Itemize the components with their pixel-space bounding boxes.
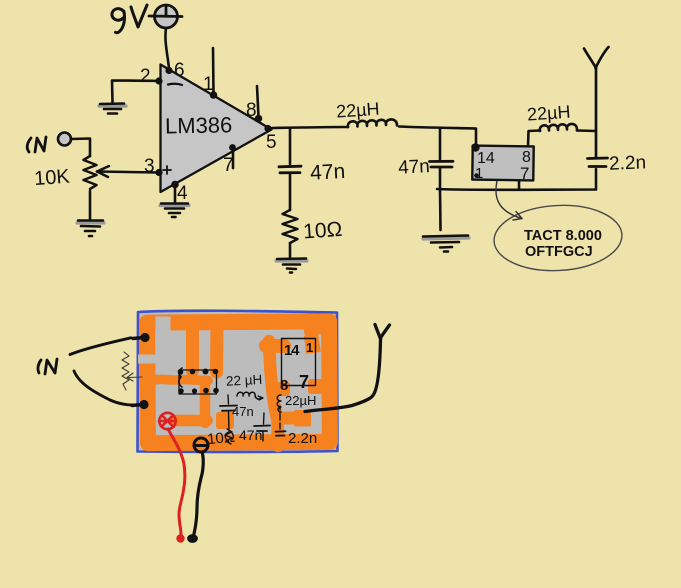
trace vertical DIP down [200,385,211,423]
red wire end [176,534,184,542]
svg-text:22 µH: 22 µH [226,372,263,389]
IC footprint pin labels [280,340,313,394]
svg-text:TACT 8.000: TACT 8.000 [524,228,602,244]
ground (pin 4) [160,204,189,218]
svg-text:14: 14 [284,342,300,359]
bottom net wire [437,169,596,190]
svg-text:6: 6 [174,60,185,81]
pin 6 [165,60,184,81]
capacitor sketch 47n left (PCB) [220,395,254,433]
svg-text:47n: 47n [398,156,431,179]
wire pot to ground [89,191,92,219]
red battery wire [168,429,185,534]
potentiometer R1 10K [33,156,158,190]
svg-text:22µH: 22µH [526,102,571,125]
antenna [584,47,609,157]
op-amp U1 LM386 [161,65,272,193]
svg-text:47n: 47n [239,427,262,443]
pin 7 [223,144,236,176]
DIP-8 footprint [179,368,217,394]
crystal oscillator module U2 [471,143,533,183]
svg-text:4: 4 [177,183,188,204]
DIP pads row top [178,369,219,375]
ground (pin 2) [99,104,126,114]
svg-text:5: 5 [266,132,277,153]
pin 1 [203,48,217,99]
wire L1 to U2 pin14 [399,127,476,146]
svg-text:OFTFGCJ: OFTFGCJ [525,244,593,260]
svg-text:LM386: LM386 [165,112,233,138]
svg-text:7: 7 [520,164,529,183]
pad 47n left [216,412,234,429]
pad IN2 [132,400,149,409]
capacitor sketch 2.2n (PCB) [276,406,318,447]
capacitor C4 2.2n [588,152,647,174]
coil sketch L1 (PCB) [237,392,263,400]
IN label (PCB) [38,359,57,374]
ground (R2) [276,259,307,273]
svg-text:8: 8 [280,377,288,394]
wire input to potentiometer [71,139,90,157]
svg-text:1: 1 [306,340,313,355]
resistor sketch between IN pads [122,352,142,390]
border gap left [138,355,156,364]
trace arm C to pad14 [266,339,284,353]
wire IN top [70,338,131,355]
inductor L1 22uH [336,99,398,127]
svg-text:10Ω: 10Ω [302,218,343,244]
callout arrow [496,181,522,220]
pin 5 [264,125,276,153]
pin 3 [144,156,163,177]
wire pin 2 to ground [112,81,159,103]
wire IN bottom [74,371,133,405]
power + terminal [159,413,176,429]
ground (C2) [423,236,469,252]
inductor L2 22uH [526,102,596,131]
pad IN1 [133,333,150,342]
pin 8 [246,86,262,122]
PCB copper border ring [147,321,330,443]
resistor R2 10 ohm [283,173,343,257]
svg-text:3: 3 [144,156,155,177]
trace to power pad [176,415,207,427]
black battery wire [194,452,203,534]
svg-text:22µH: 22µH [285,393,316,408]
pin 2 [140,66,163,87]
svg-text:2.2n: 2.2n [288,430,317,447]
trace arm to antenna pad [283,412,296,425]
callout ellipse [492,202,623,274]
ground (pot) [77,221,104,237]
pad pin1 (PCB) [304,329,321,354]
wire U2 pin8 to L2 [528,131,540,147]
svg-text:47n: 47n [232,404,254,419]
trace border bulge top-right [303,324,323,336]
IC footprint square [282,339,316,386]
PCB board outline (blue) [138,311,338,452]
svg-text:7: 7 [299,372,309,392]
trace vertical C [269,341,278,446]
pad pin8 (PCB) [276,382,290,396]
antenna wire (PCB) [305,325,390,412]
svg-text:10K: 10K [33,166,71,190]
black wire end [187,534,198,543]
battery B1 9V label [112,5,147,33]
svg-text:22µH: 22µH [336,99,381,122]
border notch top-left [156,317,171,332]
antenna pad [294,410,311,427]
input terminal IN [27,133,71,153]
svg-text:2.2n: 2.2n [609,152,647,174]
trace horizontal to DIP [152,379,208,380]
svg-text:7: 7 [223,155,234,176]
coil sketch 22uH right (PCB) [277,393,316,412]
wire C2 to ground [439,168,442,230]
capacitor C1 47n [279,128,346,185]
power - terminal [194,438,208,452]
svg-text:47n: 47n [310,160,346,185]
resistor sketch 10ohm (PCB) [206,429,235,448]
pin 4 [171,181,188,204]
svg-text:2: 2 [140,66,151,87]
trace vertical A [186,322,199,371]
capacitor C2 47n [398,128,453,179]
pad pin7 (PCB) [308,379,323,394]
wire pin 5 output [272,127,348,128]
wire 9V to pin 6 [165,28,169,69]
callout text [524,228,602,260]
trace vertical B [210,322,224,372]
capacitor sketch 47n mid (PCB) [239,413,270,443]
battery B1 terminal circle [149,5,182,28]
DIP pads row bottom [178,388,219,394]
